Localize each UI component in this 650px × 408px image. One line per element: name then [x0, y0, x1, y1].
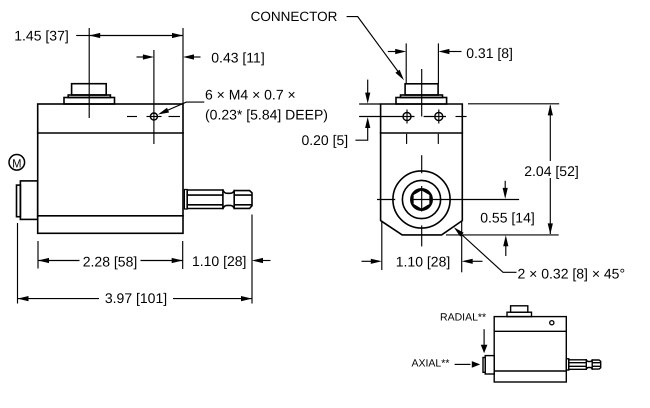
small hex bit body	[569, 360, 601, 370]
dim 0.20 bottom arrow	[365, 117, 370, 128]
small hex bit collar	[566, 359, 569, 370]
hex bit facet lines	[187, 194, 223, 196]
note leader arrow	[158, 108, 169, 115]
dim 0.43 right arrow tail	[193, 56, 201, 58]
inner socket circle	[411, 189, 432, 210]
dim 3.97 right arrow	[241, 296, 252, 301]
hex bit body	[187, 190, 252, 209]
small bottom band line	[494, 370, 566, 372]
dim 1.10F right extension line	[461, 221, 463, 272]
dim 2.28 left arrow	[38, 258, 49, 263]
front boss mid	[401, 95, 443, 98]
dim 1.45 left arrow	[89, 33, 100, 38]
flange line	[38, 132, 183, 134]
dim 1.10F left arrow tail	[362, 260, 373, 262]
hex bit groove border lines	[222, 190, 224, 209]
dim 1.10F right arrow tail	[472, 260, 483, 262]
connector boss base	[64, 98, 115, 105]
axial arrow	[472, 361, 480, 368]
dim 0.31 right arrow	[438, 49, 449, 54]
body outline	[38, 104, 183, 233]
dim 0.31 left arrow tail	[388, 51, 397, 53]
dim 2.28 line segments	[38, 260, 80, 262]
screw hole center line vertical	[153, 50, 155, 144]
top edge left extension	[359, 103, 381, 105]
hex bit collar	[184, 190, 187, 210]
front screw hole right	[435, 113, 443, 121]
boss center line	[88, 28, 90, 118]
front hole vertical ticks	[406, 110, 408, 124]
svg-text:2.28 [58]: 2.28 [58]	[83, 253, 138, 269]
svg-text:0.43 [11]: 0.43 [11]	[211, 49, 264, 65]
svg-text:(0.23* [5.84] DEEP): (0.23* [5.84] DEEP)	[205, 107, 328, 123]
svg-text:2 × 0.32 [8] × 45°: 2 × 0.32 [8] × 45°	[518, 266, 626, 282]
dim 2.28 right arrow	[172, 258, 183, 263]
front hole center line segments	[359, 116, 414, 118]
dim 0.55 bottom arrow tail	[505, 246, 507, 257]
ticks below flange line	[406, 134, 408, 144]
front boss top	[405, 84, 438, 95]
dim 0.55 top arrow tail	[504, 181, 506, 190]
svg-text:6 × M4 × 0.7 ×: 6 × M4 × 0.7 ×	[205, 87, 296, 103]
dim 1.45 line	[89, 35, 183, 37]
svg-text:CONNECTOR: CONNECTOR	[251, 9, 338, 24]
dim 2.04 top extension line	[468, 103, 559, 105]
dim 2.04 bottom arrow	[548, 223, 553, 234]
dim 0.43 right arrow	[183, 54, 194, 59]
hex socket	[413, 189, 431, 209]
chamfer leader arrow	[454, 227, 464, 236]
circle horizontal center line	[377, 199, 395, 201]
small hex bit facet lines	[569, 362, 587, 364]
svg-text:0.55 [14]: 0.55 [14]	[480, 210, 535, 226]
chamfer leader line	[458, 231, 517, 272]
dim 1.10F left extension line	[381, 221, 383, 270]
dim 1.10 right arrow tail	[262, 260, 271, 262]
front flange line	[381, 132, 463, 134]
connector boss top	[72, 84, 107, 95]
dim 0.43 left arrow	[143, 54, 154, 59]
dim 3.97 line segments	[18, 298, 100, 300]
radial arrow tail	[483, 329, 485, 346]
dim 2.28 right extension line	[182, 241, 184, 269]
bottom band line	[38, 215, 183, 217]
dim 3.97 left arrow	[18, 296, 29, 301]
dim 2.04 line segments	[549, 106, 551, 162]
left shaft plug cap	[17, 185, 21, 217]
connector leader arrow	[395, 70, 404, 80]
screw hole circle	[150, 113, 157, 120]
svg-text:RADIAL**: RADIAL**	[440, 312, 486, 324]
dim 0.20 top arrow	[365, 93, 370, 104]
svg-text:2.04 [52]: 2.04 [52]	[524, 163, 579, 179]
right edge extension line	[182, 28, 184, 104]
svg-text:M: M	[12, 156, 21, 170]
svg-text:1.10 [28]: 1.10 [28]	[396, 253, 451, 269]
dim 1.45 leader	[76, 35, 89, 37]
connector left extension line	[405, 43, 407, 83]
small body outline	[494, 317, 566, 382]
outer circle	[393, 171, 450, 228]
circle vertical center line	[421, 155, 423, 173]
dim 1.10F right arrow	[462, 259, 473, 264]
radial arrow	[481, 345, 488, 353]
front body outline with chamfers	[381, 104, 463, 235]
small plug cap	[483, 358, 485, 373]
left shaft plug base	[20, 181, 37, 220]
svg-text:1.45 [37]: 1.45 [37]	[14, 27, 69, 43]
M mark circle	[9, 155, 25, 171]
note leader line	[161, 102, 205, 113]
middle circle	[402, 180, 440, 218]
dim 0.20 leader	[355, 127, 367, 140]
small boss base	[507, 312, 532, 316]
small plug base	[485, 356, 494, 374]
front boss center line	[421, 69, 423, 117]
front boss base	[396, 98, 447, 105]
dim 0.31 right arrow tail	[449, 51, 462, 53]
connector boss mid	[68, 95, 110, 98]
dim 0.55 bottom arrow	[503, 235, 508, 246]
dim 1.10 right arrow	[252, 258, 263, 263]
dim 1.10 right extension line	[251, 215, 253, 304]
dim 0.43 left arrow tail	[137, 56, 146, 58]
screw hole center dashes	[127, 116, 137, 118]
dim 2.04 bottom extension line	[446, 234, 559, 236]
connector leader line	[347, 17, 400, 74]
dim 1.10F left arrow	[371, 259, 382, 264]
dim 0.20 top arrow tail	[367, 80, 369, 94]
svg-text:AXIAL**: AXIAL**	[412, 358, 450, 370]
dim 2.04 top arrow	[548, 104, 553, 115]
small groove border lines	[585, 360, 587, 370]
svg-text:0.31 [8]: 0.31 [8]	[466, 45, 513, 61]
small screw hole	[550, 321, 554, 325]
dim 3.97 left extension line	[17, 223, 19, 304]
dim 0.55 top arrow	[503, 188, 508, 199]
dim 2.28 left extension line	[37, 241, 39, 269]
axial arrow tail	[455, 363, 471, 365]
front screw hole left	[403, 113, 411, 121]
small flange line	[494, 330, 566, 332]
dim 1.45 right arrow	[172, 33, 183, 38]
svg-text:1.10 [28]: 1.10 [28]	[192, 253, 247, 269]
svg-text:0.20 [5]: 0.20 [5]	[301, 132, 348, 148]
svg-text:3.97 [101]: 3.97 [101]	[105, 290, 167, 306]
small boss top	[511, 306, 528, 312]
connector right extension line	[437, 43, 439, 83]
dim 0.31 left arrow	[395, 49, 406, 54]
